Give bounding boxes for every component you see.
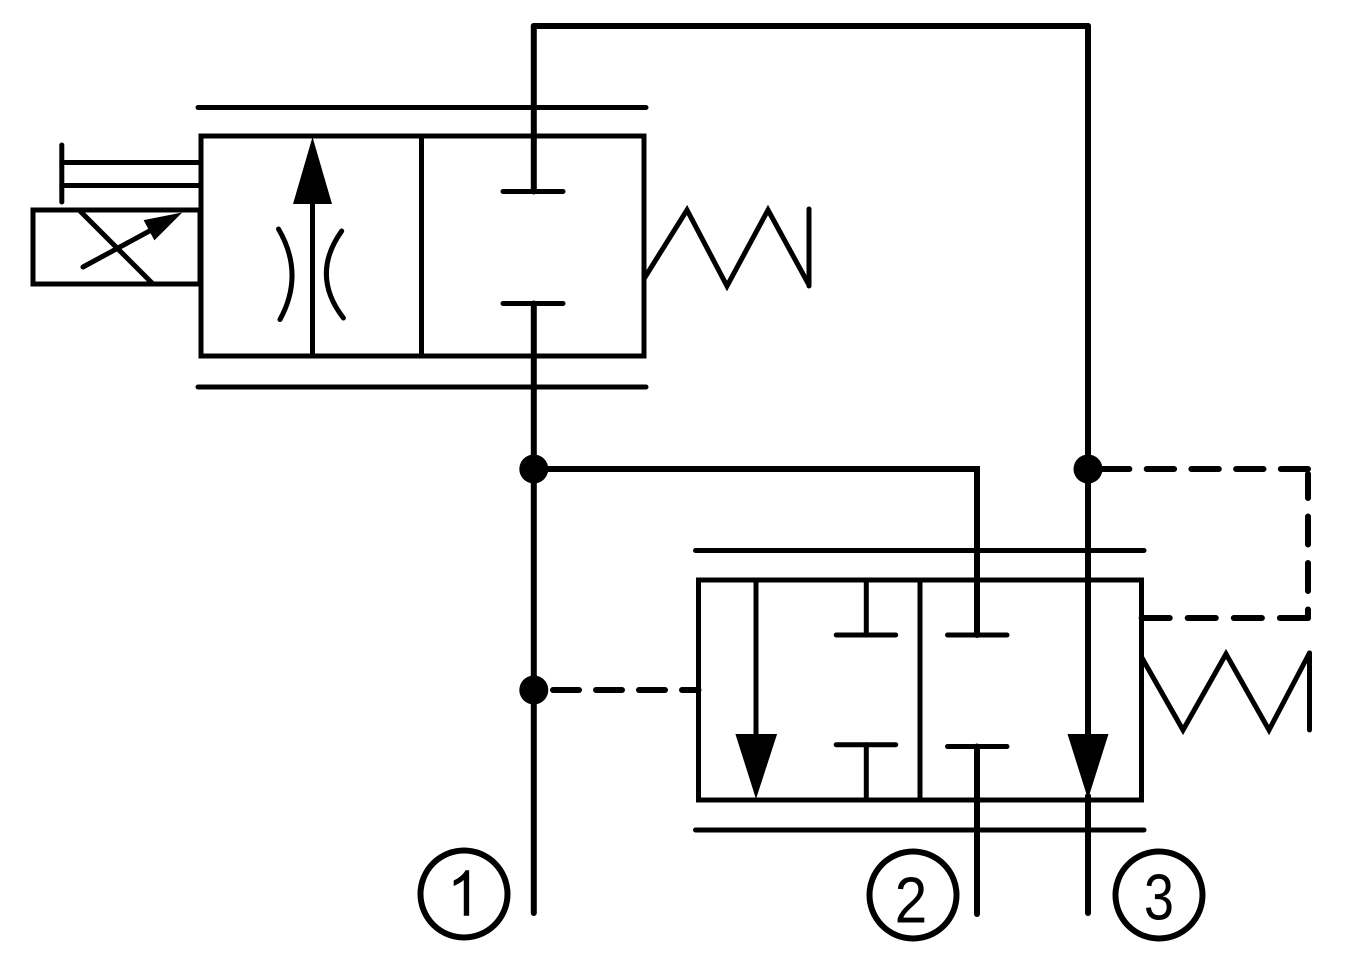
wire: valve V1 bottom port down to port 1 [531, 304, 537, 914]
wire: branch from node A to valve V2 pilot port [534, 469, 977, 635]
solenoid A1 diagonal [80, 211, 152, 283]
valve V2 right upper closed-port bar [948, 633, 1008, 638]
valve V1 compartment divider [419, 136, 424, 356]
valve V2 left upper closed-port T [836, 580, 896, 635]
pilot dashed line: node B to valve V2 left end [553, 687, 699, 693]
solenoid A1 proportional arrow [83, 213, 182, 268]
node C junction dot [1074, 455, 1103, 484]
port 3 circle [1116, 852, 1203, 939]
valve V1 upper closed-port bar [503, 189, 563, 194]
pilot dashed line: return run to valve V2 right end [1142, 615, 1309, 621]
pilot dashed line: node C to corner (top run) [1102, 466, 1308, 472]
valve V1 upper rail [198, 105, 646, 110]
valve V2 right lower closed-port bar [948, 744, 1008, 749]
solenoid A1 box [33, 210, 200, 284]
port 1 circle [421, 851, 508, 938]
valve V2 body [699, 580, 1142, 800]
valve V1 body [201, 136, 644, 356]
port 2 label [898, 877, 925, 923]
valve V2 left flow arrow (down) [735, 580, 777, 799]
proportional symbol line 2 [62, 183, 201, 188]
pilot dashed line: right corner drop [1305, 474, 1311, 618]
valve V1 lower rail [198, 385, 646, 390]
valve V2 right flow arrowhead (down) [1068, 734, 1109, 799]
proportional symbol line 1 [62, 160, 201, 165]
wire: valve V2 arrow line down to port 3 [1085, 796, 1091, 913]
valve V1 throttle restriction arcs [279, 229, 344, 320]
proportional symbol bar [59, 145, 64, 202]
wire: valve V1 top port up to top rail-run [531, 26, 537, 192]
valve V2 compartment divider [918, 580, 923, 800]
port 3 label [1146, 874, 1172, 920]
valve V1 flow arrow (up) [293, 137, 332, 356]
valve V2 lower rail [696, 828, 1145, 833]
port 1 label [454, 870, 469, 916]
wire: top horizontal run [534, 23, 1088, 29]
wire: valve V2 port down to port 2 [974, 747, 980, 915]
valve V2 upper rail [696, 548, 1145, 553]
wire: right vertical drop to valve V2 [1085, 26, 1091, 737]
node B junction dot [519, 676, 548, 705]
node A junction dot [519, 455, 548, 484]
port 2 circle [870, 852, 957, 939]
valve V1 lower closed-port bar [503, 301, 563, 306]
spring S1 (valve V1 return spring) [645, 209, 810, 286]
spring S2 (valve V2 return spring) [1142, 653, 1310, 730]
valve V2 left lower closed-port T [836, 745, 896, 800]
